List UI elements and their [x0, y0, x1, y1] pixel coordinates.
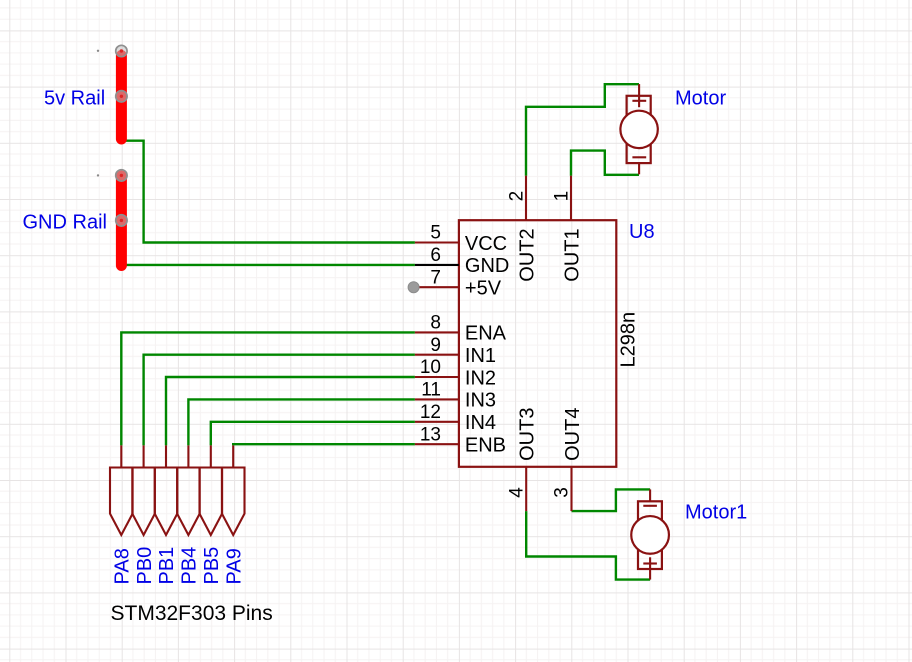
- svg-text:ENB: ENB: [465, 435, 506, 457]
- svg-text:GND: GND: [465, 255, 509, 277]
- connector stub PA9: [232, 445, 234, 467]
- svg-text:L298n: L298n: [618, 312, 640, 368]
- svg-text:7: 7: [430, 267, 441, 288]
- chip pin 13 line: [415, 443, 459, 445]
- wire pin3 to motor1 minus: [572, 489, 651, 511]
- svg-text:OUT1: OUT1: [561, 228, 583, 281]
- svg-text:1: 1: [551, 191, 572, 202]
- chip pin 8 line: [415, 331, 459, 333]
- connector stub PB0: [143, 445, 145, 467]
- chip pin 12 line: [415, 421, 459, 423]
- svg-text:11: 11: [421, 380, 441, 401]
- motor M plus mark: [632, 100, 646, 102]
- svg-text:9: 9: [430, 335, 441, 356]
- gnd rail dot 2: [116, 215, 127, 226]
- connector pin body PA9: [222, 468, 245, 536]
- chip pin 1 stub: [570, 176, 572, 221]
- motor1 bottom stub: [649, 557, 651, 579]
- gnd rail dot 1: [116, 170, 127, 181]
- svg-text:OUT3: OUT3: [517, 408, 539, 461]
- chip pin 9 line: [415, 354, 459, 356]
- svg-text:PB4: PB4: [179, 547, 201, 585]
- svg-text:PB0: PB0: [134, 547, 156, 585]
- svg-text:10: 10: [420, 357, 441, 378]
- IC U8 L298n body: [459, 220, 616, 467]
- svg-text:12: 12: [420, 402, 441, 423]
- svg-text:+5V: +5V: [465, 278, 502, 300]
- svg-text:2: 2: [506, 191, 527, 202]
- svg-text:STM32F303 Pins: STM32F303 Pins: [111, 602, 273, 625]
- connector pin body PB5: [200, 468, 223, 536]
- 5v rail bar: [116, 56, 127, 140]
- chip pin 10 line: [415, 376, 459, 378]
- svg-text:VCC: VCC: [465, 233, 507, 255]
- wire PB1 to pin10 IN2: [166, 377, 415, 445]
- motor M body rect: [627, 96, 651, 163]
- svg-text:PB5: PB5: [201, 547, 223, 585]
- svg-text:PA8: PA8: [112, 548, 134, 584]
- chip pin 3 stub: [570, 467, 572, 511]
- motor M minus mark: [632, 156, 646, 158]
- wire PA8 to pin8 ENA: [121, 332, 415, 445]
- connector pin body PA8: [110, 468, 133, 536]
- svg-text:5v Rail: 5v Rail: [44, 87, 105, 109]
- svg-text:OUT2: OUT2: [516, 228, 538, 281]
- pin 7 unconnected dot: [408, 282, 419, 293]
- svg-text:IN2: IN2: [465, 367, 496, 389]
- svg-text:OUT4: OUT4: [562, 408, 584, 461]
- svg-text:IN1: IN1: [465, 345, 496, 367]
- chip pin 11 line: [415, 398, 459, 400]
- connector stub PA8: [120, 445, 122, 467]
- wire PB0 to pin9 IN1: [144, 355, 415, 446]
- connector stub PB5: [210, 445, 212, 467]
- connector pin body PB0: [132, 468, 155, 536]
- svg-text:PB1: PB1: [156, 547, 178, 585]
- svg-text:PA9: PA9: [223, 548, 245, 584]
- connector stub PB4: [187, 445, 189, 467]
- wire pin1 to motor minus: [571, 151, 639, 176]
- connector stub PB1: [165, 445, 167, 467]
- 5v rail dot 2: [116, 91, 127, 102]
- connector pin body PB4: [177, 468, 200, 536]
- svg-text:13: 13: [420, 424, 441, 445]
- svg-text:GND Rail: GND Rail: [23, 212, 107, 234]
- wire PA9 to pin13 ENB: [233, 444, 415, 445]
- svg-text:8: 8: [430, 313, 441, 334]
- svg-text:5: 5: [430, 223, 441, 244]
- chip pin 4 stub: [525, 467, 527, 511]
- wire pin4 to motor1 plus: [526, 511, 650, 579]
- chip pin 2 stub: [525, 176, 527, 221]
- motor M circle: [620, 111, 657, 148]
- svg-text:U8: U8: [629, 221, 655, 243]
- motor1 plus mark: [643, 562, 657, 564]
- connector pin body PB1: [155, 468, 178, 536]
- wire gnd rail to pin6: [121, 264, 415, 266]
- svg-text:IN3: IN3: [465, 390, 496, 412]
- motor1 circle: [631, 516, 669, 554]
- chip pin 7 line: [415, 286, 459, 288]
- chip pin 5 line: [415, 241, 459, 243]
- svg-text:6: 6: [430, 245, 441, 266]
- motor1 body rect: [638, 501, 662, 569]
- svg-text:Motor: Motor: [675, 88, 726, 110]
- svg-text:Motor1: Motor1: [685, 502, 747, 524]
- wire pin2 to motor plus: [526, 84, 639, 176]
- chip pin 6 line (black): [415, 264, 459, 266]
- wire PB4 to pin11 IN3: [188, 399, 415, 445]
- gnd rail bar: [116, 176, 127, 266]
- svg-text:ENA: ENA: [465, 323, 507, 345]
- motor1 minus mark: [643, 505, 657, 507]
- svg-text:3: 3: [552, 487, 573, 498]
- 5v rail dot 1: [116, 45, 127, 56]
- svg-text:4: 4: [506, 487, 527, 498]
- motor M bottom stub: [638, 163, 640, 174]
- wire PB5 to pin12 IN4: [211, 422, 415, 446]
- motor M top stub: [638, 84, 640, 107]
- motor1 top stub: [649, 489, 651, 501]
- wire 5v rail to pin5: [121, 141, 415, 243]
- gnd rail anchor speck: [97, 174, 99, 176]
- svg-text:IN4: IN4: [465, 412, 496, 434]
- 5v rail anchor speck: [97, 50, 99, 52]
